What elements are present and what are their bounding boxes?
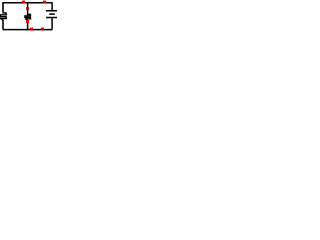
node top wire right bbox=[43, 1, 46, 4]
resistor R1 bbox=[0, 11, 6, 20]
wire middle branch lower bbox=[27, 23, 29, 30]
battery V1 plate short bbox=[49, 13, 55, 15]
wire top bbox=[3, 2, 52, 4]
wire right lower bbox=[51, 18, 53, 30]
wire left lower bbox=[2, 20, 4, 30]
node bottom wire left bbox=[30, 28, 33, 31]
wire left upper bbox=[2, 2, 4, 11]
wire bottom bbox=[3, 29, 52, 31]
node handle top of R2 bbox=[26, 7, 29, 10]
node handle bottom of R2 bbox=[26, 20, 29, 23]
wire R2 upper lead bbox=[27, 10, 29, 14]
battery V1 plate long bottom bbox=[46, 17, 57, 19]
node bottom wire right bbox=[41, 28, 44, 31]
resistor R2 bbox=[25, 13, 31, 20]
node top wire left bbox=[22, 1, 25, 4]
battery V1 plate long top bbox=[46, 10, 57, 12]
wire middle branch upper bbox=[27, 3, 29, 8]
wire right upper bbox=[51, 2, 53, 10]
